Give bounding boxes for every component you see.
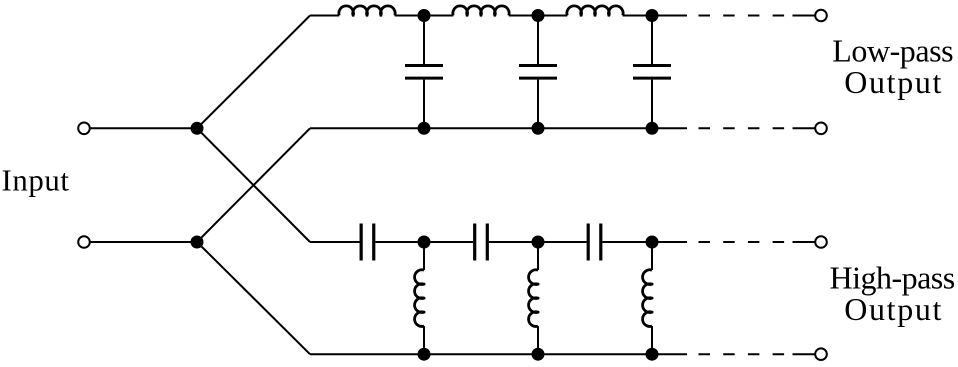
wire HP top rail segment 1 <box>310 241 360 243</box>
wire LP bottom rail <box>310 127 687 129</box>
output terminal T5 (high-pass +) <box>815 236 827 248</box>
wire HP top rail segment 4 <box>652 241 687 243</box>
label Low-pass Output <box>832 33 953 100</box>
wire diagonal B to high-pass bottom rail <box>197 242 310 354</box>
wire input top lead <box>90 127 197 129</box>
wire input bottom lead <box>90 241 197 243</box>
wire HP top rail segment 2 <box>424 241 473 243</box>
output terminal T3 (low-pass +) <box>815 10 827 22</box>
inductor L4 <box>415 242 424 354</box>
node HP3 (bottom) <box>646 348 659 361</box>
capacitor C3 <box>633 16 671 129</box>
inductor L2 <box>453 6 509 16</box>
output terminal T6 (high-pass -) <box>815 348 827 360</box>
node LP3 (bottom) <box>646 122 659 135</box>
node LP3 (top) <box>646 9 659 22</box>
node A (top input junction) <box>191 122 204 135</box>
wire diagonal B to low-pass bottom rail <box>197 128 310 242</box>
svg-text:Output: Output <box>844 64 943 100</box>
inductor L6 <box>643 242 652 354</box>
node LP2 (top) <box>532 9 545 22</box>
input terminal T2 (bottom) <box>78 236 90 248</box>
label High-pass Output <box>830 259 955 326</box>
wire LP top dashed continuation <box>699 15 816 17</box>
wire HP top dashed continuation <box>699 241 816 243</box>
node HP1 (bottom) <box>418 348 431 361</box>
wire HP top rail segment 3 <box>538 241 587 243</box>
svg-text:Input: Input <box>2 164 70 198</box>
wire diagonal A to low-pass top rail <box>197 16 310 129</box>
wire LP top rail segment 4 <box>623 15 687 17</box>
inductor L3 <box>567 6 623 16</box>
node HP2 (top) <box>532 236 545 249</box>
wire LP bottom dashed continuation <box>699 127 816 129</box>
capacitor C2 <box>519 16 557 129</box>
node HP3 (top) <box>646 236 659 249</box>
node LP1 (bottom) <box>418 122 431 135</box>
wire diagonal A to high-pass top rail <box>197 128 310 242</box>
inductor L1 <box>339 6 395 16</box>
capacitor C5 <box>475 224 538 261</box>
node LP1 (top) <box>418 9 431 22</box>
wire HP bottom rail <box>310 353 687 355</box>
input terminal T1 (top) <box>78 123 90 135</box>
node HP2 (bottom) <box>532 348 545 361</box>
wire LP top rail segment 1 <box>310 15 339 17</box>
capacitor C1 <box>405 16 443 129</box>
svg-text:Output: Output <box>844 291 943 327</box>
wire HP bottom dashed continuation <box>699 353 816 355</box>
node B (bottom input junction) <box>191 236 204 249</box>
output terminal T4 (low-pass -) <box>815 123 827 135</box>
node LP2 (bottom) <box>532 122 545 135</box>
capacitor C4 <box>361 224 424 261</box>
wire LP top rail segment 2 <box>395 15 454 17</box>
inductor L5 <box>529 242 538 354</box>
capacitor C6 <box>588 224 652 261</box>
wire LP top rail segment 3 <box>509 15 568 17</box>
node HP1 (top) <box>418 236 431 249</box>
